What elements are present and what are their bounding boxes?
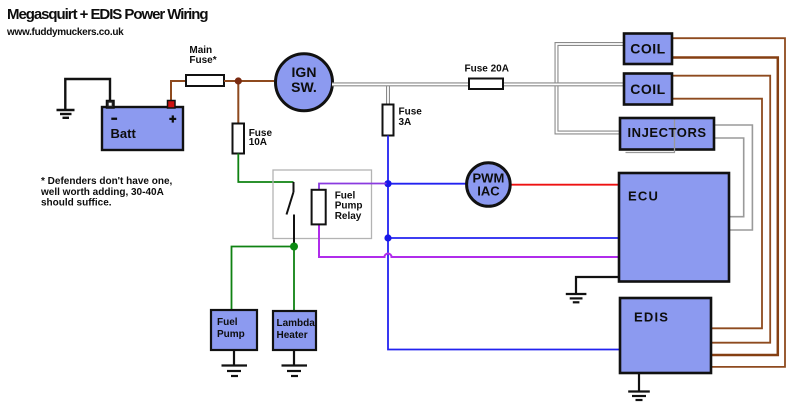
wire fuse 3A to EDIS (blue main) [388, 136, 620, 350]
label Main Fuse* [189, 45, 216, 66]
svg-text:IAC: IAC [477, 183, 500, 198]
wire IGN SW to fuse 20A and COIL 2 (double line) [332, 82, 624, 86]
wire fuse 10A to relay switch (green) [238, 154, 293, 183]
valve PWM IAC [467, 163, 511, 207]
wire branch tee to coils and injectors (double line) [557, 44, 625, 133]
svg-text:Pump: Pump [217, 329, 245, 340]
svg-text:Lambda: Lambda [277, 318, 316, 329]
lambda heater box [273, 311, 316, 350]
switch contact (relay) [287, 182, 295, 244]
svg-text:Megasquirt + EDIS Power Wiring: Megasquirt + EDIS Power Wiring [7, 6, 208, 23]
wire COIL2 pin2 to EDIS (brown) [672, 99, 762, 329]
wire INJECTORS to ECU (gray outer) [714, 125, 752, 230]
battery Batt [102, 101, 183, 151]
ground EDIS [628, 392, 650, 401]
wire COIL1 pin1 to EDIS (brown) [672, 38, 785, 367]
wire junction to Fuel Pump (green) [232, 247, 295, 311]
ignition switch IGN SW [276, 54, 333, 111]
svg-text:Relay: Relay [335, 211, 362, 222]
wire ECU to ground [576, 277, 619, 293]
wire tap down to fuse 3A (double line) [386, 84, 390, 105]
node blue junction ECU feed [384, 234, 391, 241]
ground ECU [566, 294, 587, 302]
node blue junction relay feed [384, 180, 391, 187]
svg-text:* Defenders don't have one,: * Defenders don't have one, [41, 176, 173, 187]
wire EDIS to ground [638, 373, 640, 391]
ground fuel pump [222, 366, 248, 377]
label Fuel Pump Relay [335, 191, 363, 222]
wire junction to PWM IAC (blue) [388, 183, 467, 185]
svg-text:COIL: COIL [630, 81, 665, 97]
injectors box [620, 118, 714, 153]
svg-text:Fuse 20A: Fuse 20A [465, 64, 509, 75]
fuse 10A [233, 124, 245, 154]
svg-text:EDIS: EDIS [634, 310, 669, 325]
svg-text:IGN: IGN [292, 64, 317, 80]
svg-text:Batt: Batt [111, 126, 137, 141]
wire junction to Lambda Heater (green) [293, 247, 295, 312]
wire lambda heater to ground [293, 350, 295, 365]
ground lambda heater [282, 366, 308, 377]
wire battery positive to main fuse (brown) [171, 81, 186, 102]
svg-text:INJECTORS: INJECTORS [628, 125, 707, 140]
svg-text:10A: 10A [249, 137, 267, 148]
fuel pump box [211, 310, 257, 350]
svg-text:COIL: COIL [630, 41, 665, 57]
svg-text:well worth adding, 30-40A: well worth adding, 30-40A [40, 187, 164, 198]
wire relay coil to ECU (purple with hop) [319, 225, 619, 258]
node junction main feed [235, 77, 242, 84]
svg-text:Fuel: Fuel [217, 317, 238, 328]
coil COIL 1 [624, 34, 672, 65]
wire relay coil to 12V junction (purple) [319, 184, 387, 191]
wire COIL1 pin2 to EDIS (brown thick) [672, 58, 778, 356]
svg-text:Fuse*: Fuse* [189, 55, 216, 66]
wire PWM IAC to ECU (red) [510, 184, 619, 186]
wire junction to ECU (blue) [388, 237, 619, 239]
svg-text:www.fuddymuckers.co.uk: www.fuddymuckers.co.uk [6, 27, 124, 38]
svg-text:3A: 3A [399, 117, 412, 128]
edis EDIS [620, 298, 711, 373]
relay coil [312, 190, 326, 225]
fuse 20A [469, 79, 503, 90]
fuse Main Fuse* [186, 75, 224, 86]
wire INJECTORS to ECU (gray inner) [714, 138, 744, 217]
wire junction to fuse 10A (brown) [237, 81, 239, 124]
ground battery [57, 110, 75, 118]
svg-text:ECU: ECU [628, 188, 659, 203]
svg-text:should suffice.: should suffice. [41, 198, 112, 209]
coil COIL 2 [624, 74, 672, 105]
relay body outline [273, 170, 372, 239]
node green junction switch output [290, 243, 298, 251]
wire main fuse to junction (brown) [224, 80, 274, 82]
label note defenders [40, 176, 173, 208]
svg-text:SW.: SW. [291, 79, 317, 95]
label Fuse 3A [399, 107, 423, 128]
wire battery negative to ground [65, 79, 110, 109]
svg-text:Heater: Heater [277, 330, 308, 341]
wire COIL2 pin1 to EDIS (brown) [672, 76, 770, 343]
ecu ECU [619, 173, 729, 282]
fuse 3A [383, 105, 394, 136]
wire fuel pump to ground [233, 350, 235, 365]
label Fuse 10A [249, 128, 273, 148]
